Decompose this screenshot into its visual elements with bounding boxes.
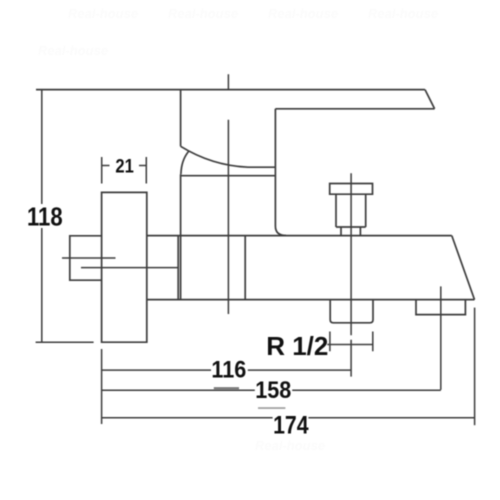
stray underline 116 <box>214 387 239 389</box>
svg-text:158: 158 <box>255 376 291 403</box>
spout right diagonal end <box>452 236 475 300</box>
dimension 158 line <box>102 389 441 391</box>
lever handle tip diagonal <box>425 90 435 109</box>
wall flange <box>102 192 147 342</box>
dimension 116 line <box>102 369 352 371</box>
svg-text:Real-house: Real-house <box>38 43 108 58</box>
dimension 118 line <box>41 90 43 343</box>
text 118 <box>27 203 63 232</box>
lever handle bottom edge <box>275 108 434 110</box>
dimension 174 line <box>102 417 475 419</box>
left extension line for bottom dims <box>101 349 103 424</box>
svg-text:Real-house: Real-house <box>368 6 438 21</box>
svg-text:Real-house: Real-house <box>68 6 138 21</box>
lever handle top edge (with left extension line to 118 dim) <box>36 89 425 91</box>
R 1/2 dimension line <box>327 344 373 346</box>
bar left end cap line <box>177 236 179 300</box>
svg-text:Real-house: Real-house <box>168 6 238 21</box>
diverter centerline <box>350 173 352 376</box>
watermark row <box>38 6 438 453</box>
bar bottom edge <box>147 299 475 301</box>
body left edge <box>180 174 182 299</box>
diverter knob cap <box>330 184 373 195</box>
text 174 <box>273 411 309 439</box>
diverter lower housing <box>330 300 373 323</box>
bar (spout tube) top edge <box>147 235 452 237</box>
svg-text:R 1/2: R 1/2 <box>266 331 328 361</box>
svg-text:Real-house: Real-house <box>255 438 325 453</box>
text 116 <box>211 355 246 382</box>
diverter knob stem <box>336 194 366 227</box>
R 1/2 end ticks <box>330 332 373 352</box>
stray underline 158 <box>258 407 285 409</box>
bar body seam <box>244 236 246 300</box>
svg-text:174: 174 <box>273 411 309 439</box>
text 21 <box>115 155 133 177</box>
inlet pipe <box>70 236 102 280</box>
dimension 118 bottom extension <box>36 341 94 343</box>
dimension 21 line <box>102 165 147 167</box>
right extension line for 174 <box>474 308 476 426</box>
text R 1/2 <box>266 331 328 361</box>
text 158 <box>255 376 291 403</box>
lever base left edge <box>180 90 182 147</box>
body centerline <box>227 74 229 314</box>
diverter knob neck <box>341 227 360 236</box>
inlet centerline lower <box>81 267 179 269</box>
svg-text:118: 118 <box>27 203 63 232</box>
svg-text:21: 21 <box>115 155 133 177</box>
inlet centerline upper <box>62 257 116 259</box>
svg-text:116: 116 <box>211 355 246 382</box>
dimension 21 end ticks <box>102 157 147 184</box>
faucet body right edge with corner radius into bar <box>275 109 286 236</box>
body band line <box>181 175 276 177</box>
shower outlet housing <box>416 300 465 315</box>
svg-text:Real-house: Real-house <box>268 6 338 21</box>
outlet centerline <box>440 286 442 389</box>
body shoulder fillet curve <box>181 152 189 175</box>
lever base bottom curve <box>181 146 276 167</box>
